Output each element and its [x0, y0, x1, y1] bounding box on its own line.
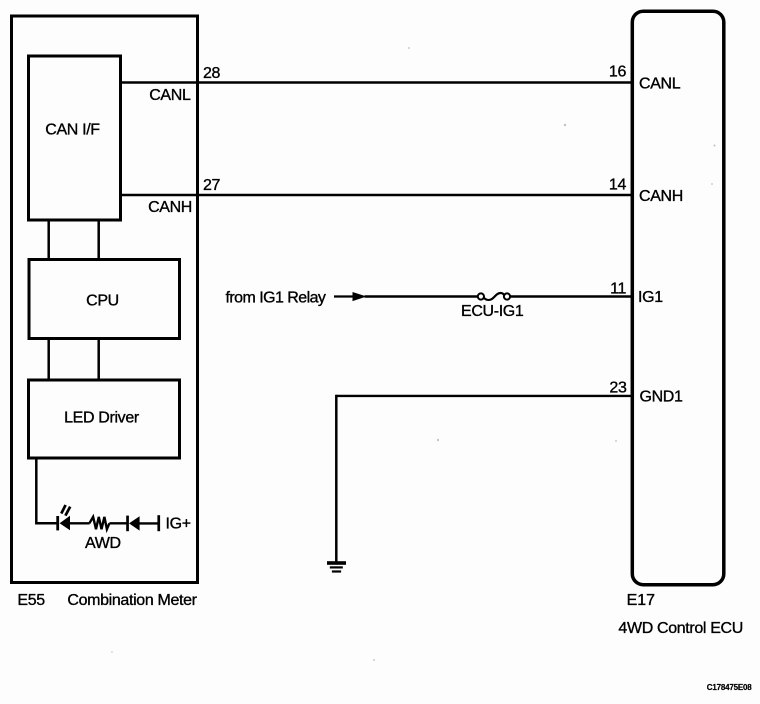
svg-text:GND1: GND1 [640, 389, 684, 406]
svg-text:11: 11 [610, 281, 626, 298]
svg-text:27: 27 [203, 177, 221, 194]
LED AWD indicator [56, 505, 70, 530]
svg-text:IG1: IG1 [638, 289, 663, 306]
wire CPU to LED Driver (right) [97, 338, 100, 381]
svg-text:from IG1 Relay: from IG1 Relay [226, 290, 326, 307]
wire CANL pin 28 to pin 16 [121, 81, 632, 84]
svg-text:ECU-IG1: ECU-IG1 [461, 303, 524, 320]
arrow from IG1 Relay [334, 292, 367, 301]
svg-text:CAN I/F: CAN I/F [45, 122, 100, 139]
combination meter box E55 [12, 16, 198, 583]
svg-text:CPU: CPU [86, 293, 119, 310]
svg-text:Combination Meter: Combination Meter [67, 592, 197, 609]
svg-text:28: 28 [203, 65, 221, 82]
svg-text:C178475E08: C178475E08 [707, 683, 752, 692]
wire diode to IG+ terminal [140, 522, 158, 524]
svg-text:E55: E55 [17, 592, 45, 609]
wire CAN I/F to CPU (right) [97, 219, 100, 260]
svg-text:14: 14 [609, 177, 627, 194]
svg-text:E17: E17 [627, 592, 656, 609]
wire CANH pin 27 to pin 14 [121, 194, 632, 197]
svg-text:4WD Control ECU: 4WD Control ECU [618, 620, 743, 637]
wire IG1 fuse to pin 11 [510, 295, 631, 297]
svg-text:CANH: CANH [639, 188, 683, 205]
svg-text:16: 16 [609, 64, 627, 81]
svg-text:IG+: IG+ [166, 516, 191, 533]
diode toward IG+ [126, 516, 139, 532]
IG+ terminal bar [157, 515, 160, 531]
svg-text:CANL: CANL [149, 87, 191, 104]
svg-text:CANL: CANL [639, 76, 681, 93]
LED Driver box [29, 380, 180, 458]
ground symbol [327, 561, 346, 572]
svg-text:LED Driver: LED Driver [64, 410, 140, 427]
wire GND1 pin 23 horizontal [336, 395, 631, 397]
svg-text:CANH: CANH [148, 199, 192, 216]
wire CAN I/F to CPU (left) [47, 219, 50, 260]
CPU box [29, 260, 180, 339]
wire CPU to LED Driver (left) [47, 338, 50, 381]
CAN I/F box [29, 56, 121, 220]
4WD control ECU connector E17 [632, 11, 724, 585]
wire LED to resistor [70, 522, 90, 524]
svg-text:23: 23 [609, 380, 627, 397]
resistor [89, 517, 109, 529]
wire IG1 arrow to fuse [365, 295, 478, 297]
wire LED Driver to AWD LED [36, 458, 57, 524]
wire GND1 vertical drop [335, 395, 338, 562]
svg-text:AWD: AWD [85, 535, 121, 552]
wire resistor to diode [109, 522, 126, 524]
fuse ECU-IG1 [478, 293, 510, 300]
